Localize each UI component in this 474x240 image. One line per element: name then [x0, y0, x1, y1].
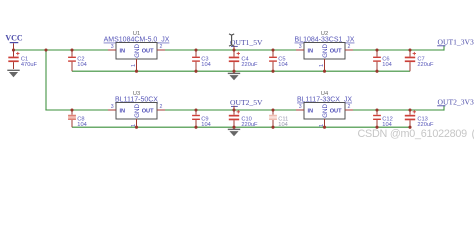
junction C5 top: [271, 48, 274, 51]
ground under C10: [228, 129, 240, 136]
junction C13 top: [408, 108, 411, 111]
capacitor C1: [8, 50, 37, 69]
junction C9 top: [194, 108, 197, 111]
wire stub up to OUT2_3V3 label: [443, 105, 445, 110]
svg-text:OUT1_3V3: OUT1_3V3: [438, 37, 474, 46]
svg-text:220uF: 220uF: [417, 62, 434, 68]
wire VCC to U1 IN: [14, 49, 109, 51]
junction C2: [70, 48, 73, 51]
capacitor C8: [68, 110, 87, 128]
svg-text:OUT: OUT: [330, 48, 342, 54]
svg-text:GND: GND: [134, 104, 141, 118]
capacitor C7: [405, 50, 434, 71]
capacitor C6: [373, 50, 392, 71]
text cursor I-beam: [229, 34, 234, 46]
svg-text:104: 104: [77, 122, 87, 128]
junction C11 bottom: [271, 126, 274, 129]
svg-text:IN: IN: [120, 108, 126, 114]
junction C4 bottom: [232, 70, 235, 73]
capacitor C10: [229, 110, 258, 128]
wire U4 OUT to OUT2_3V3: [353, 109, 444, 111]
junction C9 bottom: [194, 126, 197, 129]
svg-text:104: 104: [382, 62, 392, 68]
svg-text:2: 2: [348, 44, 351, 50]
junction C12 top: [375, 108, 378, 111]
svg-text:1: 1: [131, 64, 137, 67]
capacitor C4: [229, 50, 258, 71]
regulator U4 BL1117-33CX_JX: [296, 91, 353, 129]
junction feed: [44, 48, 47, 51]
svg-text:104: 104: [278, 62, 288, 68]
wire U2 OUT to OUT1_3V3: [353, 49, 444, 51]
ground under C4: [228, 73, 240, 80]
svg-text:220uF: 220uF: [241, 62, 258, 68]
svg-text:470uF: 470uF: [21, 62, 38, 68]
junction C5 bottom: [271, 70, 274, 73]
ground under C1: [7, 70, 19, 77]
capacitor C13: [405, 110, 434, 128]
net label OUT2_5V: [230, 98, 263, 110]
svg-text:VCC: VCC: [5, 33, 23, 42]
capacitor C3: [192, 50, 211, 71]
svg-text:104: 104: [77, 62, 87, 68]
capacitor C12: [373, 110, 393, 128]
ground rail section 2: [72, 126, 410, 128]
wire feed to section 2: [45, 50, 47, 110]
junction C12 bottom: [375, 126, 378, 129]
net label OUT1_5V: [230, 38, 263, 50]
regulator U2 BL1084-33CS1_JX: [295, 31, 355, 73]
svg-text:2: 2: [348, 104, 351, 110]
svg-text:104: 104: [278, 122, 288, 128]
svg-text:2: 2: [160, 44, 163, 50]
svg-text:IN: IN: [308, 48, 314, 54]
net label OUT2_3V3: [437, 97, 474, 106]
svg-text:OUT: OUT: [142, 108, 154, 114]
junction C7 top: [408, 48, 411, 51]
svg-text:GND: GND: [322, 44, 329, 58]
svg-text:OUT2_5V: OUT2_5V: [230, 98, 263, 107]
svg-text:104: 104: [201, 62, 211, 68]
wire section 2 input: [45, 109, 108, 111]
svg-text:2: 2: [160, 104, 163, 110]
svg-text:OUT: OUT: [142, 48, 154, 54]
wire U1 OUT to U2 IN: [165, 49, 296, 51]
svg-text:CSDN @m0_61022809 (: CSDN @m0_61022809 (: [358, 128, 474, 140]
svg-text:220uF: 220uF: [241, 122, 258, 128]
junction C8 top: [70, 108, 73, 111]
junction VCC: [12, 48, 15, 51]
svg-text:OUT: OUT: [330, 108, 342, 114]
wire stub up to OUT1_3V3 label: [443, 45, 445, 50]
capacitor C2: [68, 50, 87, 71]
regulator U1 AMS1084CM-5.0_JX: [104, 31, 170, 73]
svg-text:GND: GND: [322, 104, 329, 118]
ground rail section 1: [72, 70, 410, 72]
svg-text:104: 104: [201, 122, 211, 128]
junction C10 top: [232, 108, 235, 111]
svg-text:3: 3: [111, 104, 114, 110]
net label OUT1_3V3: [437, 37, 474, 46]
capacitor C11: [269, 110, 288, 128]
wire U3 OUT to U4 IN: [165, 109, 296, 111]
svg-text:3: 3: [111, 44, 114, 50]
capacitor C5: [269, 50, 288, 71]
junction C3 bottom: [194, 70, 197, 73]
power flag VCC: [5, 33, 23, 50]
svg-text:IN: IN: [120, 48, 126, 54]
junction C6 bottom: [375, 70, 378, 73]
junction C10 bottom: [232, 126, 235, 129]
svg-text:3: 3: [299, 104, 302, 110]
junction C11 top: [271, 108, 274, 111]
svg-text:GND: GND: [134, 44, 141, 58]
svg-text:IN: IN: [308, 108, 314, 114]
svg-text:OUT2_3V3: OUT2_3V3: [438, 97, 474, 106]
junction C3 top: [194, 48, 197, 51]
svg-text:OUT1_5V: OUT1_5V: [230, 38, 263, 47]
svg-text:3: 3: [299, 44, 302, 50]
regulator U3 BL1117-50CX: [108, 91, 165, 129]
capacitor C9: [192, 110, 211, 128]
junction C13 bottom: [408, 126, 411, 129]
svg-text:1: 1: [319, 64, 325, 67]
junction C4 top: [232, 48, 235, 51]
junction C6 top: [375, 48, 378, 51]
